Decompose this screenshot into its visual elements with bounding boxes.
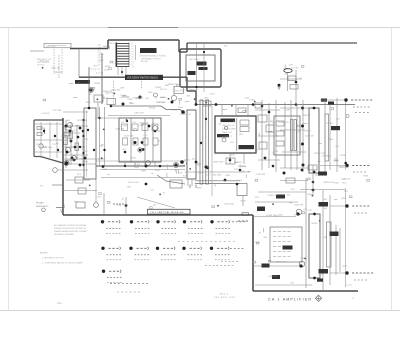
svg-text:ATTEN ): ATTEN ) [141,60,149,63]
label upper dark [318,172,327,176]
svg-text:4.7K: 4.7K [296,131,301,133]
component body [256,242,259,244]
wire mr h1 [255,109,280,111]
wire bay v3 [56,122,58,158]
test waveform row 4b [354,279,356,281]
svg-text:VR192: VR192 [239,171,246,173]
wire col x262 [261,100,263,170]
wire stub [187,95,191,97]
svg-text:C271 56K: C271 56K [53,110,63,112]
test waveform row 3 [352,205,354,207]
node j box b [203,51,205,53]
component body [134,129,137,131]
resistor R241 [266,125,274,132]
pin dot dl1 a [82,119,84,121]
wire cal drop3 [247,105,249,116]
node n3 [82,130,85,133]
test waveform row 2b [353,171,355,173]
wire bus y166 [96,165,185,167]
svg-text:R223 4.7K: R223 4.7K [77,120,87,122]
junction node [312,195,314,197]
node x3457 low [344,162,347,165]
junction node [194,98,196,100]
wire y177 link [101,177,186,179]
node j box a [195,86,197,88]
wire stub [166,173,168,178]
wire stub [268,130,272,132]
svg-text:CH 1 VERTICAL MODE SW: CH 1 VERTICAL MODE SW [150,211,184,214]
wafer box right [325,114,329,161]
wire stub [214,184,216,187]
wire col x276 [275,100,277,172]
svg-text:C117 .001: C117 .001 [157,102,167,104]
label top cluster dark a [321,99,327,102]
transistor Q212 dot [224,179,227,182]
wire mid h y180 [66,179,90,181]
wire v x212 [211,106,213,196]
attenuator box SW101 [119,118,161,162]
connector J101 bracket [135,45,137,60]
svg-text:REV SEPT 1982: REV SEPT 1982 [214,297,236,299]
component body [179,98,182,100]
svg-text:C301 56K: C301 56K [256,174,266,176]
label out dark2 [319,269,329,274]
svg-text:100K: 100K [103,46,108,48]
page left edge [8,28,10,311]
wire stub [258,133,260,136]
wire v x3455 low [345,188,347,287]
wire drop x155 [154,162,156,166]
svg-text:Q143 .047: Q143 .047 [124,135,134,137]
connector box P201 [203,101,211,106]
waveform trace row C4 [117,291,119,293]
svg-text:4.7K: 4.7K [206,174,211,176]
thermal network text row 3 [273,241,276,243]
label trace sep dark [221,119,236,123]
wire c201 drop [286,73,288,92]
transistor Q321 body [296,209,302,215]
wire stub [71,146,75,148]
svg-text:Q324: Q324 [303,209,307,211]
svg-text:R133 15K: R133 15K [295,204,305,206]
label gnd small dark [317,279,323,282]
waveform sparse row y265 [205,265,207,267]
wire stub [109,46,111,49]
svg-text:R103: R103 [36,144,40,146]
node coupling gnd dot [278,84,281,87]
wire arrow dash [113,203,124,205]
wire mr h3 [258,159,280,161]
node out a [301,169,304,172]
svg-text:10: 10 [132,67,134,69]
component body [335,159,338,161]
junction node [89,185,91,187]
wire mr h4 [280,107,310,109]
wire col x297 [296,104,298,170]
component body [177,85,180,87]
wire y172 mid [185,171,250,173]
wire bay h1 [35,123,62,125]
transistor Q122 dot [171,101,174,104]
svg-text:C323 100K: C323 100K [224,203,235,205]
junction node [42,67,44,69]
wire stub [69,82,73,84]
wire ladder lead 3 [125,67,127,75]
wire gain step [161,106,185,113]
label gnd dark [272,275,280,279]
switch wafer W1 [291,120,293,151]
attenuator cell resistor R133 [152,124,158,131]
wire bus x99 lower [99,107,101,166]
junction node [78,82,80,84]
svg-text:VR331: VR331 [171,109,178,111]
svg-text:AVD &: AVD & [220,293,229,296]
node cal a [229,159,232,162]
svg-text:Q198 470: Q198 470 [198,101,208,103]
svg-text:R348 10uF: R348 10uF [43,147,54,149]
transistor Q101 dot [65,125,68,128]
wire bus y161 [96,160,186,162]
wire tp140 [58,169,88,171]
board outline inner left horizontal [79,76,125,78]
label mag regis dark box [75,80,90,84]
component box R150 [75,177,83,183]
transistor Q110 dot [89,88,92,91]
transistor Q10 body [39,144,43,148]
wire y1895 link [300,189,345,191]
attenuator trimmer circle 1 [153,126,158,131]
svg-text:VR323 8.2K: VR323 8.2K [180,114,191,116]
svg-text:L266 10uF: L266 10uF [134,113,144,115]
svg-text:CR338: CR338 [39,128,46,130]
node bus bar b1 b [200,142,202,144]
resistor R246 [276,131,284,136]
transistor Q150 into U120 [181,110,185,114]
test point node TP2 [345,164,348,167]
wire col x269 [268,103,270,168]
svg-text:R150: R150 [77,174,81,176]
thermal network text row 1 [273,231,276,233]
test point symbol 1 [346,114,349,117]
resistor R204 [240,127,249,132]
component body [255,179,258,181]
transistor Q103 body [65,147,70,152]
wire out h y216 [253,216,296,218]
svg-text:100K: 100K [104,98,109,100]
node u230 bot [313,171,316,174]
wire delay pointer [137,197,175,208]
wire stub [273,122,275,124]
svg-text:CR225: CR225 [184,160,191,162]
junction node [319,220,321,222]
resistor R203 [240,120,249,125]
svg-text:VR243: VR243 [326,123,333,125]
wire bus x102 [101,53,103,104]
component body [308,178,311,180]
wire stub [102,98,104,103]
svg-text:X10: X10 [121,122,124,124]
interconnect box J1 outer [180,49,221,87]
svg-text:X1: X1 [152,122,154,124]
input coax inner ticks [48,45,66,47]
svg-text:C280 8.2K: C280 8.2K [322,156,332,158]
capacitor C10 [44,129,46,134]
wire h y164 [63,163,96,165]
wire col x337 [336,98,338,172]
connector J101 pin name column [97,44,102,66]
transistor Q322 dot [299,264,302,267]
svg-text:OF P101: OF P101 [37,65,45,67]
component body [268,260,271,262]
wire h y155 [63,154,88,156]
wire v x66 [65,120,67,168]
page right edge [391,28,393,311]
node cal b [239,169,242,172]
bus bar B1 [200,100,203,184]
wire stub [153,204,156,206]
svg-text:8.2K: 8.2K [117,205,122,207]
delay line box DL1 [84,108,96,179]
wire stub [239,164,241,167]
wire stub [207,165,209,167]
resistor R330 [286,178,295,183]
board outline right vertical [252,215,254,291]
interconnect box J1 inner [186,55,215,81]
svg-text:CR352: CR352 [155,87,162,89]
resistor R110 [69,131,73,139]
wire delay pair upper [195,180,240,182]
wire out h y202 [255,201,298,203]
test point waveform cluster B3 [156,247,159,250]
wire stub [318,161,321,163]
label out dark1 [330,232,339,237]
svg-text:C372 2.2K: C372 2.2K [175,91,185,93]
transistor Q135 body [173,162,178,167]
resistor R242 [259,142,267,149]
junction node [90,89,92,91]
test point waveform cluster B1 [101,247,104,250]
label top cluster dark b [328,102,334,105]
wire bus x104 lower [104,107,106,166]
svg-text:CR161 .001: CR161 .001 [278,122,290,124]
svg-text:CH 2 TRIG: CH 2 TRIG [189,59,199,61]
svg-text:2. COMPONENT VALUES OF CIRCU: 2. COMPONENT VALUES OF CIRCUIT BOARD [42,262,83,265]
board outline top-right long line [187,42,357,44]
wire out v x330 [329,195,331,285]
wire col x330 [329,104,331,170]
node ladder lead [121,71,123,73]
node bus bar b1 a [205,118,207,120]
thermal network text row 2 [273,236,276,238]
wire u120 leg2 [191,179,193,186]
test point waveform cluster A3 [156,220,159,223]
wire out h y192 [258,191,306,193]
svg-text:0.2% ACCY: 0.2% ACCY [222,135,233,138]
wire stub [334,199,337,201]
wire probe arrow [56,207,64,209]
attenuator node d2 [141,141,144,144]
node lc extra2 [74,146,77,149]
wire h y126 [63,125,88,127]
attenuator node d6 [154,130,157,133]
board outline jog right vertical [178,40,180,52]
wire stub [259,232,261,234]
svg-text:OFF AHEAD OF INPUT: OFF AHEAD OF INPUT [141,57,162,60]
junction node [168,98,170,100]
wire mr h5 [280,129,305,131]
resistor R331 [308,165,317,170]
wire bay v1 [40,122,42,158]
attenuator divider 1 [130,118,132,162]
svg-text:CR163: CR163 [311,223,318,225]
resistor R210 [226,158,235,164]
attenuator trimmer circle 2 [138,148,142,152]
wire stub [283,67,287,69]
svg-text:L117 470: L117 470 [41,113,50,115]
test waveform row 2 [352,165,354,167]
junction node [304,258,306,260]
wire stub [176,170,178,174]
output amp box U320 [309,214,320,278]
page bottom edge [0,310,400,312]
attenuator node d7 [124,151,127,154]
svg-text:CR139 .047: CR139 .047 [62,140,74,142]
node y166 a [102,165,105,168]
svg-text:SENSE ADPT: SENSE ADPT [36,205,49,208]
resistor R114 [64,137,68,145]
resistor R10 [37,127,42,130]
ground coupling [278,88,281,90]
board outline left bay side [33,120,35,157]
svg-text:Q362: Q362 [341,198,347,200]
svg-text:R112: R112 [84,151,88,153]
ground ring G1 [42,208,46,212]
svg-text:C267 15K: C267 15K [116,129,126,131]
wire out v x336 [335,225,337,275]
component box T130 [170,180,182,188]
wire step to delay [157,175,185,184]
wire cal below2 [243,153,245,164]
resistor R116 [65,127,71,130]
component body [297,125,300,127]
wire cal below1 [229,153,231,164]
component body [331,108,334,110]
svg-text:CH 1 AMPLIFIER: CH 1 AMPLIFIER [268,298,312,302]
node n1 [70,140,73,143]
label thermal dark [283,246,293,250]
svg-text:Z=50: Z=50 [150,190,154,192]
transistor Q135 dot [174,163,177,166]
node u230 top [313,107,316,110]
board outline left drop [78,49,80,78]
wire stub [320,143,322,145]
svg-text:DL 50Ω: DL 50Ω [236,180,243,182]
wire j box crossing 2 [203,44,205,92]
wire stub [108,174,110,176]
svg-text:R110: R110 [84,139,88,141]
board outline left bay diagonal [41,157,64,164]
wire stub [135,97,137,99]
thermal network text row 6 [273,256,276,258]
wire cal drop1 [221,105,223,116]
wire stub [174,169,176,171]
amplifier box U120 [187,110,196,179]
wire stub [244,166,247,168]
attenuator cell capacitor C132 [143,138,148,145]
svg-text:1M: 1M [256,150,259,152]
signal bus node d [295,103,298,106]
svg-text:VOLTS/DIV SWITCH SW101: VOLTS/DIV SWITCH SW101 [127,77,159,80]
node left bay a [43,130,45,132]
node dl1 pin top [87,129,89,131]
delay line box DL1 inner line [86,110,88,177]
label dark line [199,67,208,70]
transistor Q210 dot [205,166,208,169]
wire stub [129,103,134,105]
node gain a [110,105,113,108]
signal bus wire [196,104,355,106]
board outline main left vertical [62,118,64,215]
junction node [217,205,219,207]
termination resistor 50ohm [255,103,262,108]
wire stub [76,125,80,127]
test point node TP4 [345,271,348,274]
transistor Q322 body [299,261,305,267]
wire stub [185,100,190,102]
transistor Q320 dot [283,172,286,175]
node dl a [236,183,239,186]
wire stub x89 upper [88,67,90,107]
attenuator node d4 [148,125,151,128]
node coupling [295,81,298,84]
transistor Q321 dot [296,212,299,215]
board outline riser [186,43,188,52]
transistor Q110 body [89,88,94,93]
wire stub [63,205,65,209]
wire probe v1 [103,193,105,215]
transistor Q101 body [67,122,72,127]
svg-text:CR200 470: CR200 470 [275,262,286,264]
wire stub [289,202,292,204]
component body [302,212,305,214]
label latch dark [319,202,329,207]
junction node [126,119,128,121]
transistor Q104 body [72,156,77,161]
wire j box crossing 1 [196,44,198,92]
wire stub [74,201,79,203]
resistor R11 [37,133,42,136]
svg-text:1. SEE PARTS LIST FOR: 1. SEE PARTS LIST FOR [42,257,64,260]
svg-text:C221 AC: C221 AC [291,67,299,70]
resistor R112 [75,143,79,151]
wire stub [284,64,286,67]
calibrator knob [222,138,226,142]
svg-text:Q101: Q101 [73,130,77,132]
junction node [229,158,231,160]
wire stub [272,152,274,154]
ground probe [60,210,63,212]
bus bar B2 [206,100,209,184]
wire v x83 [82,120,84,165]
label ch1 vert board [148,209,191,214]
svg-text:CAL: CAL [218,123,222,126]
wire stub [177,169,179,173]
node y166 d [124,165,126,167]
svg-text:93: 93 [163,193,165,195]
coupling switch box [274,116,300,155]
wire v x77 [76,125,78,160]
attenuator divider 2 [144,118,146,162]
